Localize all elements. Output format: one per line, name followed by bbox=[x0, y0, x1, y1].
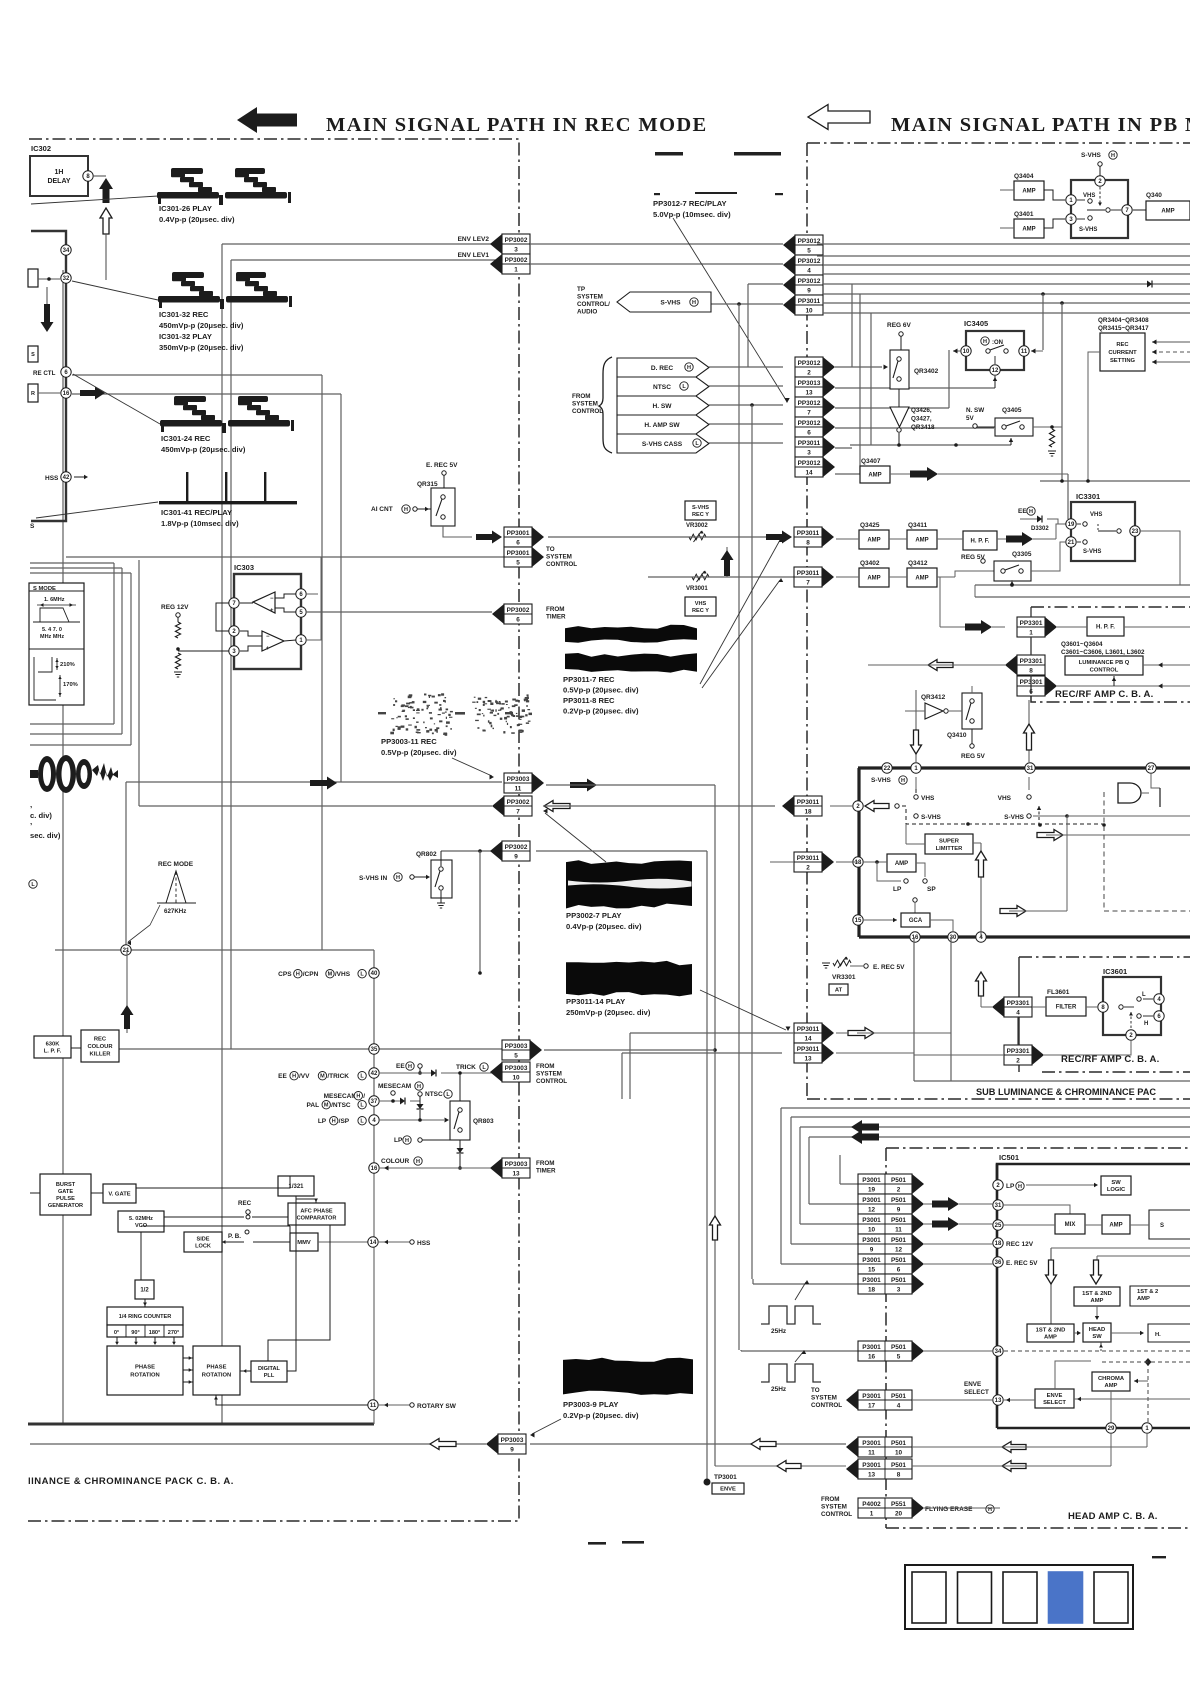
wire nested bus x114 bbox=[30, 562, 114, 564]
svg-text:TIMER: TIMER bbox=[546, 614, 566, 621]
svg-text:LP: LP bbox=[318, 1118, 327, 1125]
svg-text:S-VHS: S-VHS bbox=[871, 777, 892, 784]
IC501 pin 29 bbox=[1106, 1423, 1116, 1433]
svg-text:QR315: QR315 bbox=[417, 481, 438, 488]
hollow up arrow into PP3301-4 bbox=[980, 974, 982, 1007]
svg-text:Q340: Q340 bbox=[1146, 192, 1162, 199]
waveform blob PP3002-7 bbox=[566, 860, 692, 908]
connector PP3012-4 bbox=[795, 255, 823, 275]
svg-text:12: 12 bbox=[992, 368, 999, 374]
IC3405 switch bbox=[986, 349, 990, 353]
svg-text:REC: REC bbox=[238, 1200, 252, 1207]
dashed y1362 bbox=[1102, 1361, 1190, 1363]
pot VR3301 bbox=[833, 960, 851, 966]
svg-text:ENVE: ENVE bbox=[964, 1381, 981, 1388]
svg-text:6: 6 bbox=[897, 1266, 901, 1273]
wire MMV to node 14 bbox=[318, 1241, 368, 1243]
svg-text:PHASE: PHASE bbox=[135, 1365, 155, 1371]
svg-text:P501: P501 bbox=[891, 1344, 906, 1351]
svg-text:EE: EE bbox=[1018, 508, 1027, 515]
svg-text:11: 11 bbox=[895, 1226, 902, 1233]
svg-text:11: 11 bbox=[370, 1403, 377, 1409]
svg-text:PP3003: PP3003 bbox=[505, 1161, 528, 1168]
svg-text:S-VHS: S-VHS bbox=[1081, 152, 1102, 159]
svg-text:COMPARATOR: COMPARATOR bbox=[297, 1215, 337, 1221]
svg-text:c. div): c. div) bbox=[30, 811, 52, 820]
stray dashes bottom bbox=[588, 1542, 606, 1545]
svg-text:4: 4 bbox=[897, 1402, 901, 1409]
svg-text:SYSTEM: SYSTEM bbox=[536, 1071, 562, 1078]
page indicator square 4 bbox=[1049, 1572, 1083, 1623]
wire to SW LOGIC bbox=[1026, 1184, 1097, 1186]
svg-text:PP3011: PP3011 bbox=[797, 799, 820, 806]
switch QR803 bbox=[450, 1101, 470, 1140]
svg-text:LOGIC: LOGIC bbox=[1107, 1187, 1126, 1193]
switch Q3410 bbox=[962, 693, 982, 729]
svg-text:NTSC: NTSC bbox=[653, 384, 671, 391]
connector PP3003-13 bbox=[502, 1158, 530, 1178]
svg-text:PP3301: PP3301 bbox=[1007, 1048, 1030, 1055]
PP3003-9 pointer bbox=[532, 1419, 561, 1434]
svg-text:PP3012-7 REC/PLAY: PP3012-7 REC/PLAY bbox=[653, 199, 727, 208]
pin 16 bbox=[61, 388, 71, 398]
wires between rotation boxes bbox=[183, 1357, 193, 1359]
title arrow REC mode bbox=[237, 107, 297, 133]
svg-text:MESECAM: MESECAM bbox=[324, 1093, 357, 1100]
svg-text:L. P. F.: L. P. F. bbox=[44, 1049, 62, 1055]
svg-text:REC 12V: REC 12V bbox=[1006, 1241, 1034, 1248]
svg-text:10: 10 bbox=[512, 1074, 520, 1081]
node 4b bbox=[976, 932, 986, 942]
svg-text:SETTING: SETTING bbox=[1110, 358, 1136, 364]
svg-text:2: 2 bbox=[1016, 1057, 1020, 1064]
svg-text:PP3013: PP3013 bbox=[798, 380, 821, 387]
svg-text:25Hz: 25Hz bbox=[771, 1386, 787, 1393]
svg-text:Q3405: Q3405 bbox=[1002, 407, 1022, 414]
AMP box ic501 bbox=[1102, 1215, 1130, 1234]
phase rotation box 1 bbox=[107, 1346, 183, 1395]
pointer to PP3003-11 connector bbox=[452, 758, 492, 776]
svg-text:15: 15 bbox=[868, 1266, 876, 1273]
svg-text:P501: P501 bbox=[891, 1217, 906, 1224]
hollow arrow left row 11-10 bbox=[1002, 1442, 1026, 1453]
pointer to PP3011-14 bbox=[700, 990, 786, 1030]
svg-text:5.0Vp-p (10msec. div): 5.0Vp-p (10msec. div) bbox=[653, 210, 731, 219]
svg-text:H: H bbox=[356, 1094, 360, 1100]
svg-text:MMV: MMV bbox=[297, 1240, 311, 1246]
connector PP3011-3 bbox=[795, 437, 823, 457]
connector PP3003-11 bbox=[504, 773, 532, 793]
node 18 bbox=[853, 857, 863, 867]
svg-text:NTSC: NTSC bbox=[425, 1091, 443, 1098]
wire PP3003-5 right bbox=[544, 1049, 715, 1051]
node 1 bbox=[911, 763, 921, 773]
ground bbox=[174, 672, 182, 677]
svg-text:SELECT: SELECT bbox=[964, 1389, 989, 1396]
wire PP3011-2 row bbox=[836, 861, 858, 863]
svg-text:PAL: PAL bbox=[307, 1102, 320, 1109]
svg-text:P3001: P3001 bbox=[862, 1197, 881, 1204]
svg-text:PP3003: PP3003 bbox=[501, 1437, 524, 1444]
svg-text:0.2Vp-p (20μsec. div): 0.2Vp-p (20μsec. div) bbox=[563, 1411, 639, 1420]
svg-text:42: 42 bbox=[63, 475, 70, 481]
border luminance-chrominance pack bbox=[28, 139, 519, 1521]
svg-text:Q3401: Q3401 bbox=[1014, 211, 1034, 218]
wire nested y1137 bbox=[809, 1136, 1190, 1138]
svg-text:S: S bbox=[1160, 1223, 1164, 1229]
luminance pb q control box bbox=[1065, 656, 1143, 675]
wire to PP3002-7 x139 bbox=[138, 560, 140, 806]
svg-text:13: 13 bbox=[804, 1055, 812, 1062]
IC501 pin 18 REC12V bbox=[993, 1238, 1003, 1248]
svg-text:11: 11 bbox=[515, 785, 522, 792]
svg-text:VHS: VHS bbox=[998, 795, 1012, 802]
IC501 pin 31 bbox=[993, 1200, 1003, 1210]
node 22 bbox=[882, 763, 892, 773]
svg-text:14: 14 bbox=[805, 469, 813, 476]
pointer line wf2 bbox=[72, 281, 158, 300]
svg-text:SUPER: SUPER bbox=[939, 838, 960, 844]
svg-text:PP3011: PP3011 bbox=[797, 1026, 820, 1033]
svg-text:PP3011-8 REC: PP3011-8 REC bbox=[563, 696, 615, 705]
svg-text:H: H bbox=[1111, 153, 1115, 159]
svg-text:9: 9 bbox=[514, 853, 518, 860]
page indicator outer box bbox=[905, 1565, 1133, 1629]
svg-text:P551: P551 bbox=[891, 1501, 906, 1508]
svg-text:PP3012: PP3012 bbox=[798, 400, 821, 407]
small box S bbox=[28, 346, 38, 362]
svg-text:LOCK: LOCK bbox=[195, 1243, 211, 1249]
node 2 bbox=[853, 801, 863, 811]
arrow row 12-9 bbox=[924, 1203, 932, 1205]
wire y1081 bbox=[914, 1080, 1190, 1082]
page indicator square 3 bbox=[1003, 1572, 1037, 1623]
IC303 pin 5 bbox=[296, 607, 306, 617]
svg-text:90°: 90° bbox=[131, 1330, 139, 1336]
pointer line wf3 bbox=[73, 374, 160, 424]
svg-text:REC Y: REC Y bbox=[692, 512, 709, 518]
svg-text:REC/RF AMP C. B. A.: REC/RF AMP C. B. A. bbox=[1061, 1054, 1159, 1065]
wire y1256 bbox=[1097, 1255, 1190, 1257]
connector PP3011-18 bbox=[794, 796, 822, 816]
svg-text:18: 18 bbox=[804, 808, 812, 815]
svg-text::ON: :ON bbox=[992, 340, 1003, 346]
svg-text:31: 31 bbox=[995, 1203, 1002, 1209]
svg-text:ENVE: ENVE bbox=[1047, 1393, 1063, 1399]
pointer line wf4 bbox=[36, 502, 158, 518]
thick bus y937 bbox=[859, 935, 1190, 938]
IC3405 right arrow bbox=[1031, 350, 1043, 352]
svg-text:REC MODE: REC MODE bbox=[158, 861, 194, 868]
junction dots bus bbox=[1041, 292, 1045, 296]
wire rec12v bbox=[1051, 1247, 1190, 1249]
svg-text:V. GATE: V. GATE bbox=[108, 1192, 130, 1198]
svg-text:1ST & 2ND: 1ST & 2ND bbox=[1082, 1291, 1112, 1297]
svg-text:AUDIO: AUDIO bbox=[577, 309, 597, 316]
svg-text:9: 9 bbox=[807, 287, 811, 294]
wire row 16-5 bbox=[741, 1350, 858, 1352]
op-amp A bbox=[253, 592, 275, 613]
svg-text:Q3407: Q3407 bbox=[861, 458, 881, 465]
waveform PP3011-8 bar bbox=[565, 653, 697, 673]
connector PP3012-5 bbox=[795, 235, 823, 255]
svg-text:3: 3 bbox=[514, 246, 518, 253]
svg-text:AMP: AMP bbox=[868, 473, 881, 479]
svg-text:1/4 RING COUNTER: 1/4 RING COUNTER bbox=[119, 1314, 172, 1320]
svg-text:8: 8 bbox=[1029, 667, 1033, 674]
phase rotation box 2 bbox=[193, 1346, 240, 1395]
wire y1444 PP3003-9 bbox=[30, 1443, 486, 1445]
svg-text:29: 29 bbox=[1108, 1426, 1115, 1432]
SUPER LIMITTER box bbox=[925, 834, 973, 854]
svg-text:37: 37 bbox=[371, 1099, 378, 1105]
svg-text:CONTROL: CONTROL bbox=[1090, 667, 1119, 673]
wire picture ctl y375 bbox=[72, 374, 322, 376]
wire nested bus x122 bbox=[121, 568, 123, 734]
wire y537 bbox=[648, 536, 766, 538]
svg-text:FROM: FROM bbox=[536, 1160, 555, 1167]
svg-text:13: 13 bbox=[995, 1398, 1002, 1404]
AMP box lp/sp bbox=[887, 854, 916, 872]
1st and 2nd amp left box bbox=[1027, 1324, 1074, 1342]
small box R bbox=[28, 384, 38, 402]
IC3405 pin 10 bbox=[961, 346, 971, 356]
svg-text:10: 10 bbox=[963, 349, 970, 355]
svg-text:ROTARY SW: ROTARY SW bbox=[417, 1403, 457, 1410]
connector P3001-17 P501-4 bbox=[858, 1390, 912, 1410]
svg-text:8: 8 bbox=[897, 1471, 901, 1478]
IC3301 pack verticals bbox=[1030, 607, 1032, 617]
connector PP3301-1 bbox=[1017, 617, 1045, 637]
svg-text:0.5Vp-p (20μsec. div): 0.5Vp-p (20μsec. div) bbox=[563, 686, 639, 695]
dashed vertical x1148 bbox=[1147, 1362, 1149, 1427]
25Hz wave 2 bbox=[761, 1364, 821, 1382]
border head amp pack bbox=[886, 1147, 1190, 1149]
svg-text:PP3012: PP3012 bbox=[798, 278, 821, 285]
connector PP3301-8 bbox=[1017, 655, 1045, 675]
IC3601 pin 2 bbox=[1126, 1030, 1136, 1040]
svg-text:/SP: /SP bbox=[339, 1118, 350, 1125]
diode on bus y284 bbox=[1147, 281, 1152, 288]
svg-text:CHROMA: CHROMA bbox=[1098, 1376, 1125, 1382]
svg-text:FLYING ERASE: FLYING ERASE bbox=[925, 1506, 973, 1513]
node 37 bbox=[369, 1096, 379, 1106]
svg-text:Q3426,: Q3426, bbox=[911, 407, 932, 414]
wire GCA out bbox=[930, 920, 953, 932]
svg-text:21: 21 bbox=[1068, 540, 1075, 546]
title arrow PB mode bbox=[808, 105, 870, 130]
svg-text:D. REC: D. REC bbox=[651, 365, 674, 372]
wire sidelock bbox=[222, 1241, 244, 1243]
svg-text:L: L bbox=[1142, 992, 1146, 998]
svg-text:SYSTEM: SYSTEM bbox=[577, 294, 603, 301]
svg-text:TIMER: TIMER bbox=[536, 1168, 556, 1175]
IC302 1H delay box bbox=[30, 156, 88, 196]
svg-text:22: 22 bbox=[884, 766, 891, 772]
AT box bbox=[829, 984, 848, 995]
svg-text:17: 17 bbox=[868, 1402, 876, 1409]
label VHS REC Y bbox=[685, 597, 716, 616]
svg-text:250mVp-p (20μsec. div): 250mVp-p (20μsec. div) bbox=[566, 1008, 651, 1017]
wire burst gen left bbox=[30, 1192, 40, 1194]
connector PP3301-2 bbox=[1004, 1045, 1032, 1065]
svg-text:9: 9 bbox=[897, 1206, 901, 1213]
svg-text:13: 13 bbox=[868, 1471, 876, 1478]
svg-text:M: M bbox=[324, 1103, 329, 1109]
right bus lines bbox=[817, 243, 1190, 245]
connector PP3011-14 bbox=[794, 1023, 822, 1043]
svg-text:2: 2 bbox=[897, 1186, 901, 1193]
wire row 18-3 bbox=[753, 1283, 858, 1285]
node 4 bbox=[369, 1115, 379, 1125]
burst gate pulse generator box bbox=[40, 1174, 91, 1215]
svg-text:18: 18 bbox=[995, 1241, 1002, 1247]
svg-text:P501: P501 bbox=[891, 1257, 906, 1264]
svg-text:QR3415~QR3417: QR3415~QR3417 bbox=[1098, 325, 1149, 332]
svg-text:E. REC 5V: E. REC 5V bbox=[426, 462, 458, 469]
IC3601 pin 6 bbox=[1154, 1011, 1164, 1021]
svg-text:P501: P501 bbox=[891, 1393, 906, 1400]
svg-text:VHS: VHS bbox=[1083, 193, 1095, 199]
svg-text:IC302: IC302 bbox=[31, 144, 51, 153]
black arrow left y1137 bbox=[851, 1130, 879, 1144]
label E REC 5V mid bbox=[864, 964, 868, 968]
svg-text:EE: EE bbox=[396, 1063, 405, 1070]
svg-text:P. B.: P. B. bbox=[228, 1233, 241, 1240]
wire PP3301-2 to pin2 bbox=[1044, 1041, 1131, 1055]
svg-text:PP3011: PP3011 bbox=[797, 530, 820, 537]
svg-text:5: 5 bbox=[897, 1353, 901, 1360]
svg-text:TO: TO bbox=[811, 1387, 820, 1394]
wire nested y1108 bbox=[781, 1107, 1190, 1109]
brace from system control bbox=[599, 357, 612, 453]
wire y1444 to head amp bbox=[530, 1443, 846, 1445]
svg-text:0.4Vp-p (20μsec. div): 0.4Vp-p (20μsec. div) bbox=[159, 215, 235, 224]
wire SL right up arrow bbox=[973, 842, 981, 844]
svg-text:S-VHS IN: S-VHS IN bbox=[359, 875, 387, 882]
svg-text:AMP: AMP bbox=[1105, 1383, 1118, 1389]
node 14 bbox=[368, 1237, 378, 1247]
svg-text:S-VHS: S-VHS bbox=[1083, 549, 1101, 555]
IC303 pin 6 bbox=[296, 589, 306, 599]
svg-text:PP3002: PP3002 bbox=[507, 799, 530, 806]
svg-text:S-VHS: S-VHS bbox=[921, 814, 942, 821]
pin 7 bbox=[1122, 205, 1132, 215]
svg-text:PP3012: PP3012 bbox=[798, 460, 821, 467]
svg-text:CURRENT: CURRENT bbox=[1108, 350, 1137, 356]
svg-text:S-VHS: S-VHS bbox=[692, 505, 709, 511]
node 31 bbox=[1025, 763, 1035, 773]
wire nested bus x131 bbox=[130, 573, 132, 745]
thick signal bus y768 bbox=[858, 766, 1190, 769]
svg-text:7: 7 bbox=[516, 808, 520, 815]
svg-text:6: 6 bbox=[807, 429, 811, 436]
svg-text:P501: P501 bbox=[891, 1237, 906, 1244]
side lock box bbox=[184, 1232, 222, 1252]
svg-text:IC301-24 REC: IC301-24 REC bbox=[161, 434, 211, 443]
wire y950 chroma main bbox=[55, 949, 374, 951]
svg-text:QR802: QR802 bbox=[416, 851, 437, 858]
svg-text:VR3002: VR3002 bbox=[686, 523, 708, 529]
connector PP3012-9 bbox=[795, 275, 823, 295]
connector PP3001-5 bbox=[504, 547, 532, 567]
connector P3001-9 P501-12 bbox=[858, 1234, 912, 1254]
svg-text:SYSTEM: SYSTEM bbox=[546, 554, 572, 561]
svg-text:12: 12 bbox=[868, 1206, 876, 1213]
svg-text:PP3002: PP3002 bbox=[505, 237, 528, 244]
svg-text:PP3012: PP3012 bbox=[798, 360, 821, 367]
H cut box bbox=[1148, 1324, 1190, 1342]
node 27 bbox=[1146, 763, 1156, 773]
hollow arrow left y665 bbox=[928, 660, 953, 671]
svg-text:SUB LUMINANCE & CHROMINANCE PA: SUB LUMINANCE & CHROMINANCE PAC bbox=[976, 1087, 1156, 1097]
svg-text:Q3601~Q3604: Q3601~Q3604 bbox=[1061, 641, 1103, 648]
connector PP3003-5 bbox=[502, 1040, 530, 1060]
svg-text:5: 5 bbox=[807, 247, 811, 254]
svg-text:AMP: AMP bbox=[867, 576, 880, 582]
svg-text:P3001: P3001 bbox=[862, 1393, 881, 1400]
svg-text:Q3402: Q3402 bbox=[860, 560, 880, 567]
svg-text:REC: REC bbox=[94, 1037, 107, 1043]
wire pin31 to MIX bbox=[1004, 1205, 1070, 1214]
svg-text:PP3301: PP3301 bbox=[1020, 658, 1043, 665]
wire pin6 stub bbox=[307, 593, 318, 595]
svg-text:PP3003: PP3003 bbox=[505, 1065, 528, 1072]
svg-text:Q3427,: Q3427, bbox=[911, 416, 932, 423]
svg-text:35: 35 bbox=[371, 1047, 378, 1053]
waveform IC301-26 bbox=[157, 168, 291, 205]
svg-text:1ST & 2ND: 1ST & 2ND bbox=[1036, 1328, 1066, 1334]
svg-text:ROTATION: ROTATION bbox=[202, 1373, 231, 1379]
svg-text:11: 11 bbox=[868, 1449, 875, 1456]
svg-text:PP3011-7 REC: PP3011-7 REC bbox=[563, 675, 615, 684]
wires amps bbox=[836, 538, 859, 540]
connector PP3012-6 bbox=[795, 417, 823, 437]
svg-text:P3001: P3001 bbox=[862, 1177, 881, 1184]
svg-text:MESECAM: MESECAM bbox=[378, 1083, 411, 1090]
connector P3001-16 P501-5 bbox=[858, 1341, 912, 1361]
wire PP3001-5 y557 bbox=[66, 556, 504, 558]
hollow up arrow x1029 bbox=[1028, 700, 1030, 762]
svg-text:LUMINANCE PB Q: LUMINANCE PB Q bbox=[1079, 660, 1130, 666]
svg-text:AMP: AMP bbox=[1137, 1296, 1150, 1302]
HEAD SW box bbox=[1083, 1323, 1111, 1342]
wire QR315 to PP3001-6 bbox=[443, 526, 472, 537]
hollow arrow y1444 bbox=[751, 1439, 776, 1450]
svg-text:32: 32 bbox=[63, 276, 70, 282]
VHS pin left bbox=[914, 795, 918, 799]
svg-text:1: 1 bbox=[1029, 629, 1033, 636]
svg-text:34: 34 bbox=[995, 1349, 1002, 1355]
svg-text:COLOUR: COLOUR bbox=[87, 1044, 113, 1050]
wire ENV LEV2 to right pack bbox=[530, 243, 783, 245]
IC303 pin 3 bbox=[229, 646, 239, 656]
waveform IC301-32 bbox=[158, 272, 292, 309]
wire row 13-8 bbox=[715, 1465, 846, 1467]
zener below QR803 bbox=[459, 1140, 461, 1148]
svg-text:AI CNT: AI CNT bbox=[371, 506, 393, 513]
svg-text:sec. div): sec. div) bbox=[30, 831, 61, 840]
node 16 bbox=[369, 1163, 379, 1173]
svg-text:H: H bbox=[417, 1084, 421, 1090]
connector PP3012-7 bbox=[795, 397, 823, 417]
svg-text:P501: P501 bbox=[891, 1462, 906, 1469]
phase cells bbox=[107, 1325, 183, 1337]
svg-text:16: 16 bbox=[63, 391, 70, 397]
svg-text:/CPN: /CPN bbox=[303, 971, 319, 978]
svg-text:IC3405: IC3405 bbox=[964, 319, 988, 328]
svg-text:PP3003-9 PLAY: PP3003-9 PLAY bbox=[563, 1400, 618, 1409]
